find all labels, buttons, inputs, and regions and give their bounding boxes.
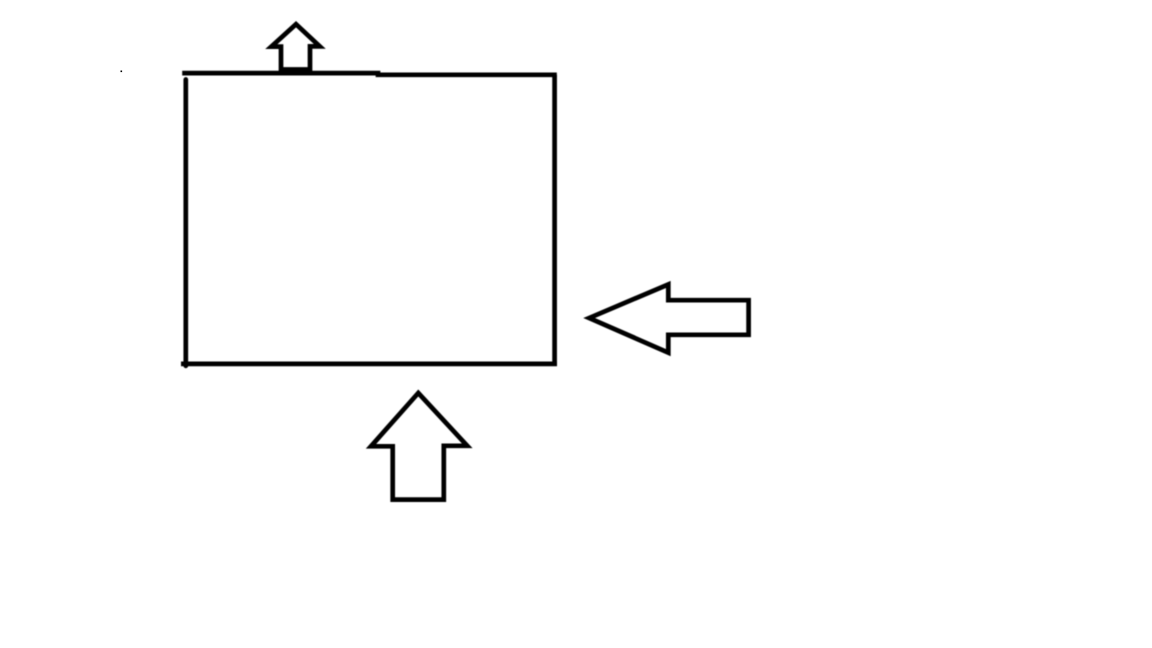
left edge (183, 80, 188, 366)
bottom edge (181, 362, 557, 367)
right edge (552, 75, 557, 364)
top edge with slight step (182, 73, 557, 75)
left-pointing arrow at right (589, 284, 748, 352)
up arrow below rectangle (371, 393, 467, 500)
small up arrow on top edge (271, 24, 320, 69)
rectangle (box outline) (181, 73, 557, 366)
stray dot (121, 71, 123, 73)
